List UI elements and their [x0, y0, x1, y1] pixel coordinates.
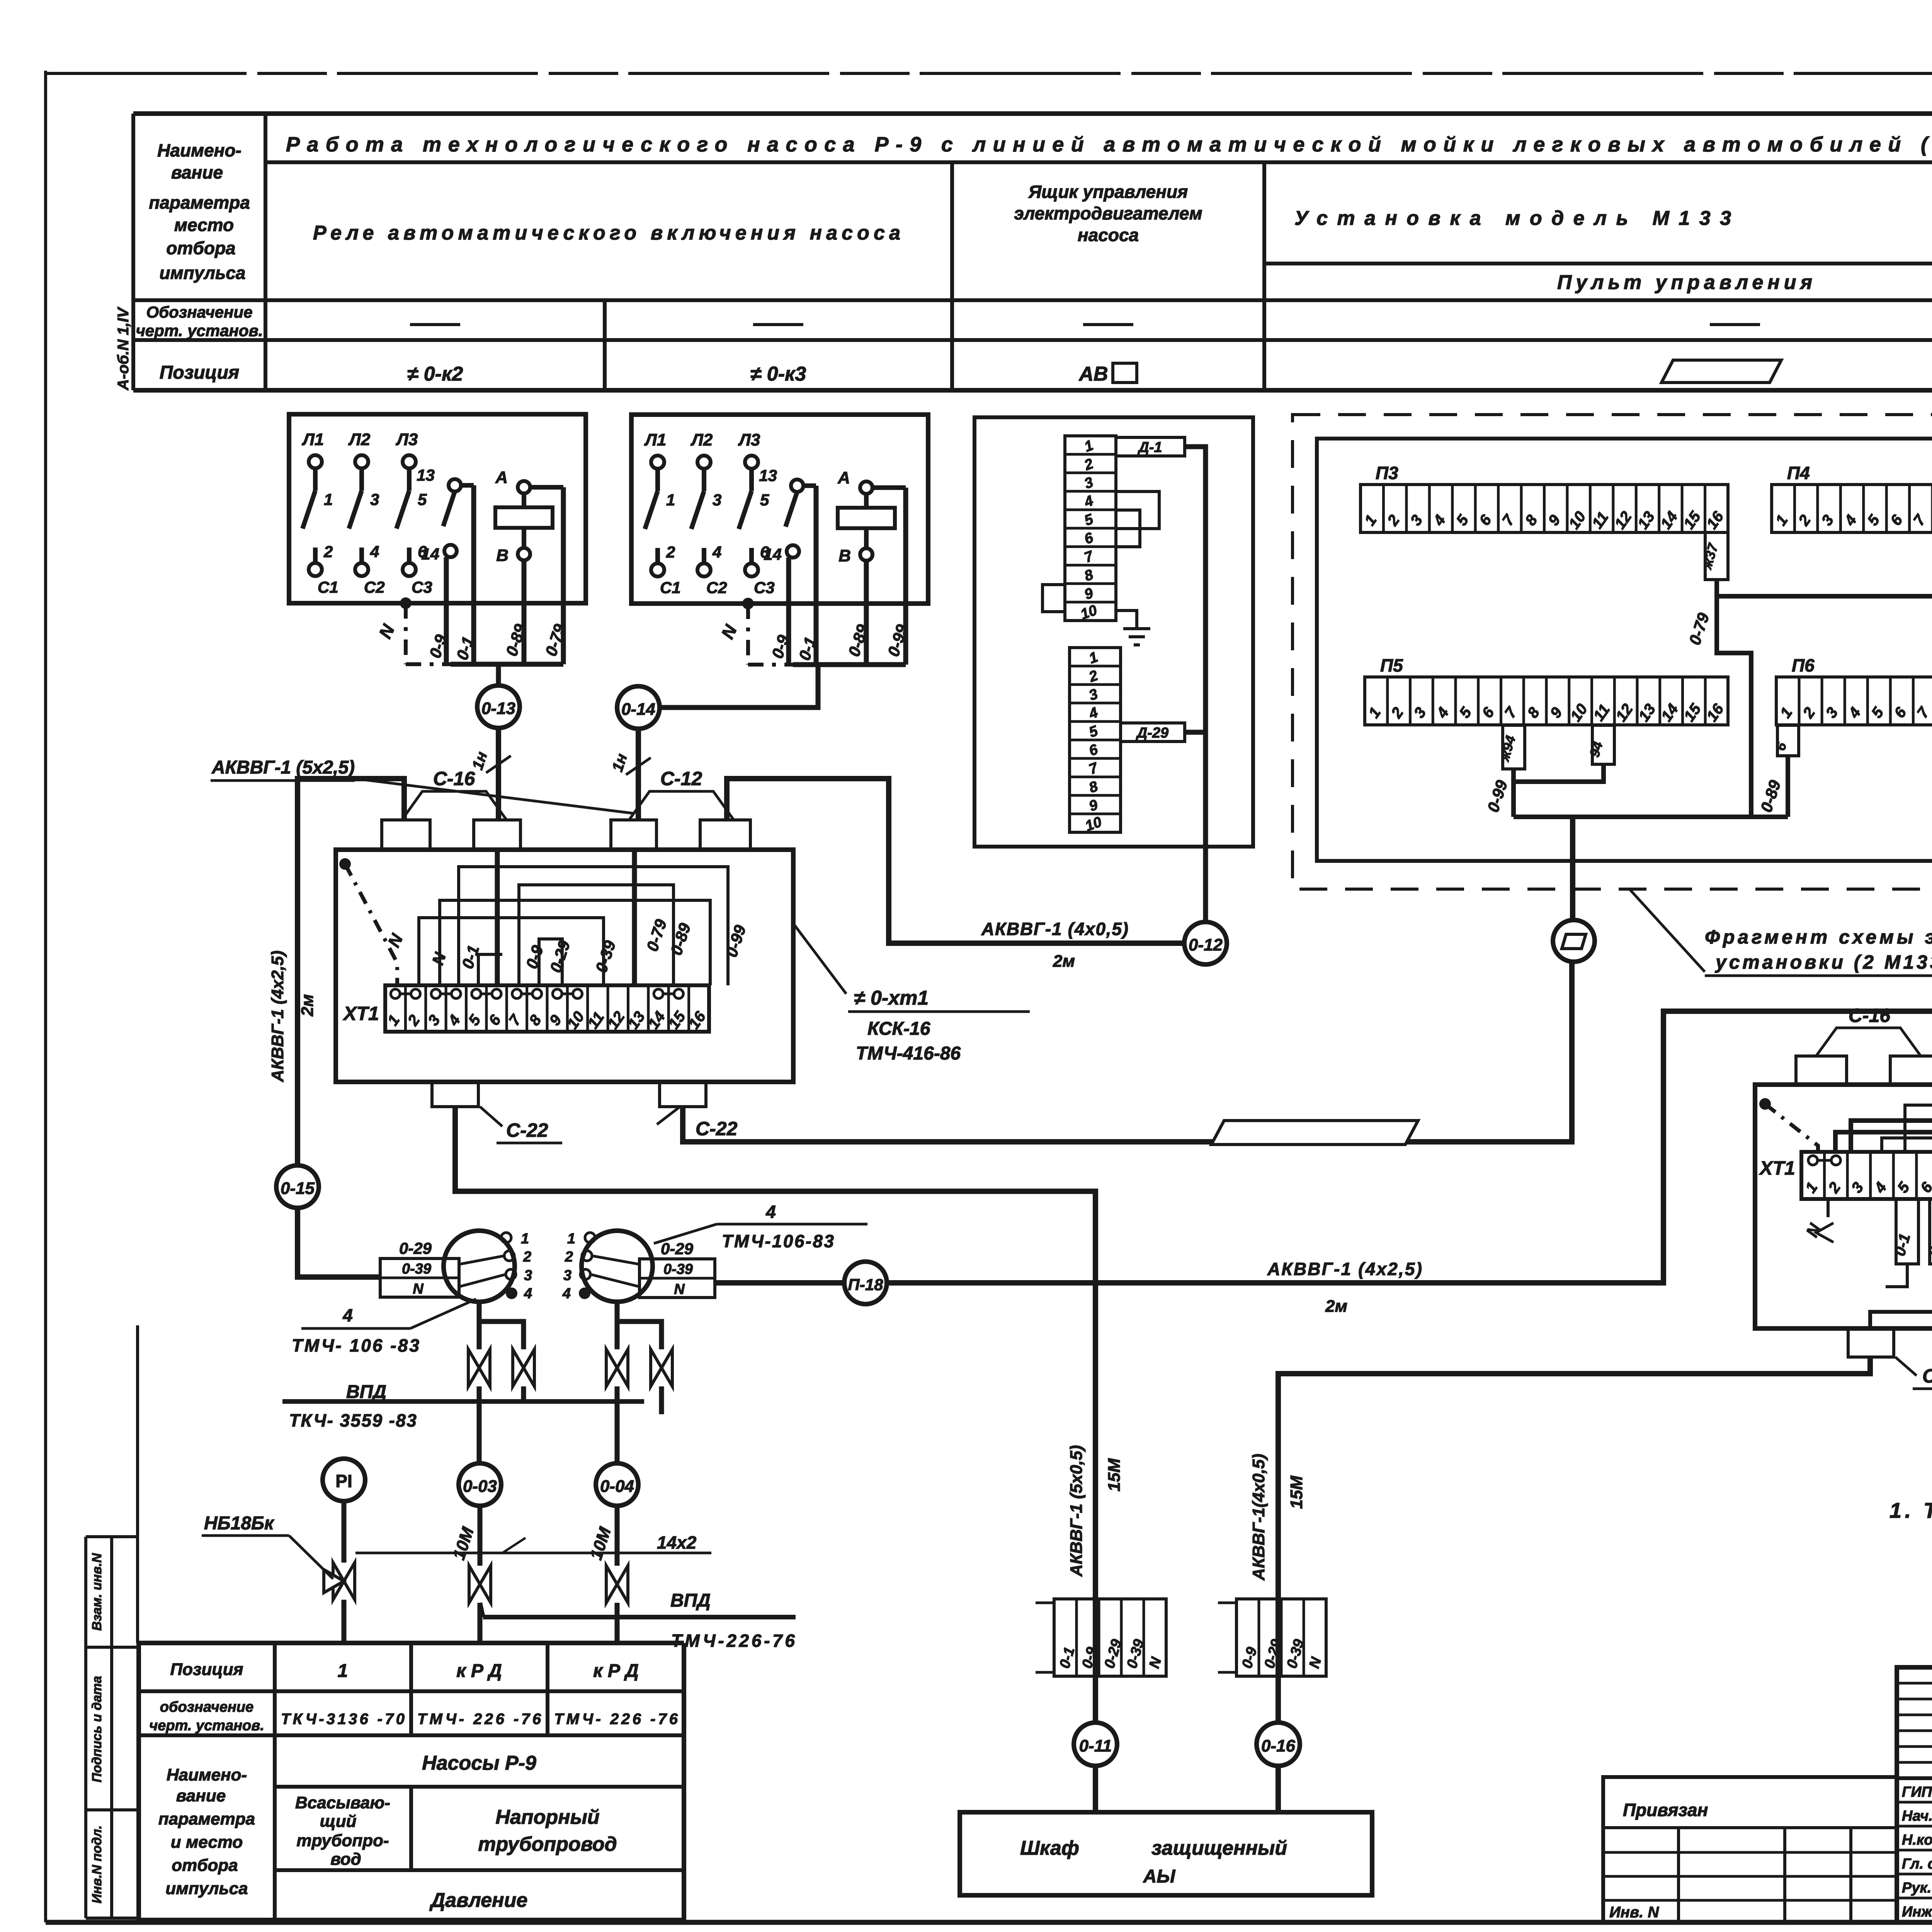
svg-text:0-03: 0-03: [463, 1477, 497, 1496]
junction box 0-ХТ1 (right) outline: [1755, 1085, 1932, 1328]
transmitter circle О-15: [276, 1165, 319, 1208]
svg-text:Инв. N: Инв. N: [1609, 1904, 1659, 1921]
svg-text:место: место: [174, 215, 234, 235]
svg-text:Гл. спец: Гл. спец: [1902, 1856, 1932, 1872]
svg-text:П4: П4: [1787, 463, 1810, 483]
hanging tag 0-9 (right box): [1930, 1199, 1932, 1264]
svg-text:3: 3: [524, 1267, 532, 1284]
connector 2 cable tag О-29/О-39/N: [639, 1259, 715, 1298]
wire Д-1/Д-29 down to О-12: [1185, 447, 1206, 922]
svg-text:С1: С1: [660, 578, 681, 597]
svg-text:КСК-16: КСК-16: [867, 1019, 930, 1039]
hanging tag 0-1 (right box): [1896, 1199, 1918, 1264]
С-16 tabs on top of right ХТ1 box: [1796, 1056, 1847, 1085]
dash-dot neutral lead inside right box: [1759, 1098, 1771, 1110]
transmitter circle О-16: [1257, 1723, 1300, 1766]
С-16 bracket and label: [402, 791, 507, 820]
ground symbol under upper strip: [1116, 611, 1137, 629]
sheet frame bottom border: [46, 1920, 1932, 1925]
svg-text:Напорный: Напорный: [495, 1806, 599, 1828]
svg-text:1: 1: [666, 491, 675, 509]
terminal strip 1-10 (lower) in middle Д box: [1070, 648, 1121, 832]
wire drop 0-99: [903, 488, 908, 665]
cable tag Д-1: [1116, 437, 1185, 456]
riser to О-03: [477, 1401, 482, 1463]
wire to О-16: [1276, 1676, 1281, 1723]
svg-text:импульса: импульса: [165, 1879, 248, 1898]
svg-text:параметра: параметра: [149, 192, 250, 213]
title block outline: [1897, 1667, 1932, 1922]
wire drop 0-89: [864, 561, 869, 665]
svg-text:≠ 0-к3: ≠ 0-к3: [750, 363, 806, 385]
svg-text:Рук. гр.: Рук. гр.: [1902, 1880, 1932, 1896]
svg-text:0-15: 0-15: [281, 1179, 315, 1198]
svg-text:Давление: Давление: [429, 1889, 528, 1912]
transmitter circle О-11: [1074, 1723, 1117, 1766]
terminal strip П4 1-16: [1772, 485, 1932, 532]
internal harness (right box): [1835, 1056, 1932, 1152]
installation unit inner solid box: [1317, 439, 1932, 861]
valve 2a: [606, 1349, 628, 1386]
three-way valve under РI: [333, 1563, 355, 1600]
svg-text:ТМЧ-226-76: ТМЧ-226-76: [671, 1631, 795, 1651]
svg-text:НБ18Бк: НБ18Бк: [204, 1513, 275, 1534]
svg-text:1: 1: [338, 1661, 348, 1681]
signature table: [1897, 1801, 1932, 1804]
svg-text:PI: PI: [335, 1471, 352, 1491]
svg-text:АКВВГ-1 (4х0,5): АКВВГ-1 (4х0,5): [981, 919, 1128, 939]
wire О-99 drop from П5: [1511, 782, 1516, 817]
terminal strip П3 1-16: [1361, 485, 1728, 532]
connector 2 drop wire: [615, 1302, 620, 1349]
wire to О-11: [1093, 1676, 1098, 1723]
svg-text:С-16: С-16: [1849, 1005, 1891, 1026]
svg-text:13: 13: [417, 466, 435, 484]
header позиция value parallelogram: [1662, 360, 1781, 383]
svg-text:отбора: отбора: [166, 238, 235, 258]
connector 1 pins 1-4: [501, 1233, 511, 1243]
hanging tag ж37 under П3 cell16: [1705, 532, 1728, 580]
С-22 label left: [480, 1107, 502, 1126]
Привязан table: [1603, 1777, 1897, 1922]
svg-text:Шкаф: Шкаф: [1020, 1837, 1079, 1859]
label 0-ХТ1 КСК-16 ТМЧ-416-86 (left box): [793, 923, 846, 994]
svg-text:А-об.N 1,IV: А-об.N 1,IV: [115, 306, 132, 391]
svg-text:черт. установ.: черт. установ.: [149, 1718, 264, 1734]
svg-text:Л1: Л1: [302, 430, 324, 449]
svg-text:С-12: С-12: [660, 768, 702, 789]
left margin boundary line: [136, 1325, 139, 1643]
wire О-14 to connector С-12: [636, 729, 641, 820]
internal wire О-14 entry: [632, 850, 637, 985]
N junction dot and dash-dot neutral drop: [742, 598, 754, 609]
svg-text:0-11: 0-11: [1079, 1736, 1112, 1755]
svg-text:отбора: отбора: [172, 1856, 238, 1875]
svg-text:N: N: [674, 1281, 685, 1298]
relay box 0-К3 outline: [631, 415, 928, 604]
svg-text:Л3: Л3: [396, 430, 418, 449]
wire bus to О-14: [660, 665, 818, 707]
sheet frame left border: [44, 71, 47, 1922]
jumper bracket cells 3-5: [1116, 492, 1159, 529]
header table grid: [133, 111, 1932, 116]
svg-text:Подпись и дата: Подпись и дата: [90, 1676, 104, 1782]
svg-text:ХТ1: ХТ1: [342, 1003, 379, 1024]
svg-text:АКВВГ-1 (4х2,5): АКВВГ-1 (4х2,5): [1267, 1259, 1422, 1279]
svg-text:трубопровод: трубопровод: [478, 1833, 617, 1855]
svg-text:С-22: С-22: [1922, 1365, 1932, 1387]
svg-text:ГИП: ГИП: [1902, 1784, 1932, 1800]
svg-text:П5: П5: [1380, 655, 1403, 675]
svg-text:1: 1: [567, 1231, 575, 1247]
svg-text:Д-1: Д-1: [1137, 439, 1162, 456]
С-22 tabs on bottom of left ХТ1 box: [432, 1082, 478, 1107]
svg-text:С-22: С-22: [506, 1119, 548, 1141]
svg-text:ХТ1: ХТ1: [1759, 1157, 1795, 1179]
internal jumper harness (left box): [459, 867, 728, 985]
svg-text:4: 4: [370, 543, 379, 561]
transmitter circle О-12: [1184, 922, 1227, 964]
tag linking wires (right box): [1870, 1264, 1932, 1328]
svg-text:3: 3: [563, 1267, 571, 1284]
svg-text:15М: 15М: [1105, 1458, 1124, 1492]
impulse line 14х2: [355, 1552, 711, 1554]
svg-text:ТМЧ-416-86: ТМЧ-416-86: [856, 1043, 961, 1064]
svg-text:Нач. отд.: Нач. отд.: [1902, 1808, 1932, 1824]
pipe ВПД ТКЧ-3559-83: [282, 1399, 644, 1404]
connector 2 pins 1-4: [585, 1233, 595, 1243]
wire О-12 to С-12 right tab: [727, 779, 1184, 943]
С-12 bracket and label: [629, 791, 734, 820]
wire О-15 riser: [298, 779, 404, 1165]
svg-text:0-39: 0-39: [663, 1261, 693, 1277]
hanging tag ж94 under П5 cell7: [1503, 725, 1525, 769]
svg-text:3: 3: [713, 491, 721, 509]
svg-text:Л2: Л2: [348, 430, 371, 449]
svg-text:2м: 2м: [298, 994, 317, 1017]
terminal strip 1-10 (upper) in middle Д box: [1065, 436, 1116, 621]
svg-text:≠ 0-к2: ≠ 0-к2: [407, 363, 463, 385]
С-22 tabs bottom of right ХТ1 box: [1848, 1328, 1894, 1357]
svg-text:2м: 2м: [1325, 1297, 1347, 1316]
svg-text:ВПД: ВПД: [346, 1382, 386, 1402]
svg-text:0-04: 0-04: [600, 1477, 634, 1496]
svg-text:2: 2: [565, 1249, 573, 1265]
installation unit dashed enclosure: [1293, 415, 1932, 889]
valve 1a: [468, 1349, 490, 1386]
wire О-15 to round connector tag: [298, 1208, 380, 1277]
wire drop 0-89: [522, 560, 527, 664]
relay box 0-К2 outline: [289, 414, 586, 603]
round connector 1 body: [444, 1231, 515, 1302]
svg-text:АВ: АВ: [1078, 363, 1108, 385]
svg-text:0-16: 0-16: [1261, 1736, 1296, 1755]
svg-text:ТКЧ-3136 -70: ТКЧ-3136 -70: [281, 1711, 405, 1728]
svg-text:насоса: насоса: [1078, 225, 1139, 245]
hanging tag 94 under П5 cell11: [1592, 725, 1614, 764]
transmitter circle О-13: [477, 685, 520, 728]
svg-text:обозначение: обозначение: [160, 1699, 254, 1715]
svg-text:Л2: Л2: [690, 430, 713, 449]
svg-text:П3: П3: [1376, 463, 1398, 483]
svg-text:0-12: 0-12: [1189, 935, 1223, 954]
cable link symbol (circle with sleeve): [1553, 920, 1595, 962]
svg-text:1: 1: [324, 490, 333, 509]
terminal jumper circles on strip (left box): [391, 989, 400, 998]
svg-text:Инв.N подл.: Инв.N подл.: [90, 1825, 104, 1903]
svg-text:2м: 2м: [1053, 952, 1075, 971]
svg-text:защищенный: защищенный: [1151, 1837, 1287, 1859]
svg-text:А: А: [837, 468, 850, 487]
junction box 0-ХТ1 (left) outline: [336, 850, 793, 1082]
wire drop 0-1: [471, 485, 476, 664]
pipe ВПД ТМЧ-226-76 lower: [483, 1615, 796, 1619]
svg-text:Привязан: Привязан: [1623, 1800, 1708, 1820]
svg-text:щий: щий: [320, 1812, 357, 1831]
svg-text:ТМЧ- 226 -76: ТМЧ- 226 -76: [554, 1711, 678, 1728]
junction box Д (middle) outline: [975, 417, 1253, 847]
С-16 bracket and label (right box): [1816, 1028, 1921, 1056]
svg-text:3: 3: [370, 490, 379, 509]
cable tag Д-29: [1121, 723, 1185, 742]
wire bus down to cable link circle: [1570, 817, 1575, 920]
svg-text:0-29: 0-29: [399, 1239, 432, 1257]
svg-text:ТМЧ- 226 -76: ТМЧ- 226 -76: [417, 1711, 541, 1728]
svg-text:4: 4: [342, 1305, 353, 1325]
svg-text:ВПД: ВПД: [670, 1590, 711, 1611]
side tab cells 9-10: [1043, 585, 1065, 612]
wire П-18 to right ХТ1 box С-12 tab: [715, 1280, 844, 1286]
svg-text:электродвигателем: электродвигателем: [1014, 203, 1202, 223]
bus inside installation box: [1514, 815, 1788, 819]
round connector 2 body: [582, 1231, 653, 1302]
svg-text:установки (2 М133. 00. 0: установки (2 М133. 00. 00. 000 ЭЧ): [1714, 951, 1932, 973]
svg-text:Наимено-: Наимено-: [157, 140, 241, 160]
terminal strip П6 1-16: [1776, 677, 1932, 725]
svg-text:С-22: С-22: [696, 1118, 738, 1139]
svg-text:Инженер: Инженер: [1902, 1904, 1932, 1920]
svg-text:4: 4: [524, 1286, 532, 1302]
svg-text:2: 2: [523, 1249, 531, 1265]
bus under relay box 1: [451, 662, 563, 667]
svg-text:импульса: импульса: [160, 263, 246, 283]
svg-text:14: 14: [764, 545, 782, 563]
svg-text:вание: вание: [176, 1786, 226, 1805]
svg-text:14: 14: [421, 545, 439, 563]
hanging tags N 0-1 0-9 0-29 0-39 (right box): [1827, 1199, 1830, 1217]
wire drop 0-9: [786, 558, 791, 665]
left margin stamp boxes: [84, 1537, 87, 1918]
terminal strip П5 1-16: [1365, 677, 1728, 725]
svg-text:трубопро-: трубопро-: [296, 1831, 389, 1850]
svg-text:С3: С3: [412, 578, 432, 596]
terminal strip ХТ1 1-16 (left box): [385, 985, 709, 1032]
svg-text:Л3: Л3: [738, 430, 760, 449]
connector 1 tag leads: [459, 1256, 504, 1264]
svg-text:Всасываю-: Всасываю-: [295, 1793, 390, 1812]
hanging tag 6 under П6 cell1: [1777, 725, 1799, 756]
svg-text:0-13: 0-13: [481, 699, 515, 718]
terminal tag strip О-1 О-9 О-29 О-39 N (О-11): [1054, 1599, 1166, 1676]
svg-text:С1: С1: [318, 578, 338, 596]
svg-text:АКВВГ-1 (5х0,5): АКВВГ-1 (5х0,5): [1067, 1445, 1086, 1577]
wire О-79 drop from П3: [1717, 596, 1751, 817]
С-12 tabs on top of left ХТ1 box: [611, 820, 656, 850]
svg-text:0-39: 0-39: [402, 1261, 431, 1277]
terminal tag strip О-9 О-29 О-39 N (О-16): [1236, 1599, 1326, 1676]
svg-text:и место: и место: [171, 1833, 243, 1852]
svg-text:Ящик управления: Ящик управления: [1028, 182, 1188, 202]
svg-text:Работа технологического насо: Работа технологического насоса Р-9 с лин…: [286, 133, 1932, 156]
svg-text:ТМЧ- 106 -83: ТМЧ- 106 -83: [292, 1335, 419, 1355]
wire О-13 to connector С-16: [496, 728, 501, 820]
svg-text:1: 1: [521, 1231, 529, 1247]
jumper bracket cells 4-6: [1116, 510, 1140, 547]
svg-text:к Р Д: к Р Д: [456, 1661, 502, 1681]
svg-text:АКВВГ-1 (4х2,5): АКВВГ-1 (4х2,5): [268, 951, 287, 1082]
svg-text:Н.контр.: Н.контр.: [1902, 1832, 1932, 1848]
svg-text:Л1: Л1: [644, 430, 667, 449]
connector 2 tag leads: [592, 1256, 639, 1264]
riser to О-04: [615, 1401, 620, 1463]
dash-dot neutral lead inside left box: [339, 858, 351, 870]
svg-text:Д-29: Д-29: [1136, 725, 1168, 741]
wire С-22 left tab to О-11 strip: [455, 1107, 1095, 1676]
svg-text:2: 2: [323, 543, 333, 561]
wire О-89 drop from П6: [1786, 756, 1790, 817]
svg-text:0-14: 0-14: [621, 700, 655, 719]
svg-text:14х2: 14х2: [657, 1532, 697, 1553]
svg-text:параметра: параметра: [158, 1810, 255, 1828]
valve 2b: [651, 1349, 672, 1386]
svg-text:4: 4: [765, 1202, 776, 1222]
svg-text:вод: вод: [330, 1850, 361, 1869]
svg-text:С-16: С-16: [433, 768, 476, 789]
С-22 label right: [657, 1107, 680, 1124]
lower valve 2: [606, 1566, 628, 1603]
svg-text:АКВВГ-1 (5х2,5): АКВВГ-1 (5х2,5): [211, 757, 355, 778]
revision table grid: [1897, 1682, 1932, 1685]
svg-text:13: 13: [759, 466, 777, 485]
N junction dot and dash-dot neutral drop: [400, 597, 412, 609]
terminal strip ХТ1 1-16 (right box): [1801, 1152, 1932, 1199]
svg-text:вание: вание: [171, 162, 223, 182]
svg-text:В: В: [496, 546, 509, 565]
svg-text:Наимено-: Наимено-: [167, 1765, 247, 1784]
svg-text:Насосы Р-9: Насосы Р-9: [422, 1752, 536, 1774]
С-22 label left (right box): [1895, 1357, 1917, 1376]
valve 1b: [513, 1349, 534, 1386]
svg-text:N: N: [413, 1281, 424, 1297]
bottom-left parameter table grid: [139, 1641, 684, 1645]
svg-text:Позиция: Позиция: [160, 362, 239, 383]
svg-text:15М: 15М: [1287, 1475, 1306, 1509]
svg-text:4: 4: [562, 1286, 571, 1302]
svg-text:5: 5: [418, 490, 427, 509]
svg-text:П6: П6: [1792, 655, 1815, 675]
transmitter circle О-04: [596, 1463, 638, 1506]
wire drop 0-9: [444, 557, 449, 664]
svg-text:С3: С3: [754, 578, 775, 597]
шкаф защищенный box: [960, 1812, 1372, 1895]
svg-text:1. Таблица применяемости: 1. Таблица применяемости лист 24.: [1889, 1498, 1932, 1522]
svg-text:ТКЧ- 3559 -83: ТКЧ- 3559 -83: [289, 1410, 417, 1430]
svg-text:к Р Д: к Р Д: [593, 1661, 639, 1681]
С-16 tabs on top of left ХТ1 box: [382, 820, 430, 850]
jumper wire П5:7 to П5:11: [1514, 764, 1604, 782]
internal wire О-13 entry: [495, 850, 500, 985]
svg-text:Обозначение: Обозначение: [146, 303, 252, 321]
svg-text:2: 2: [666, 543, 675, 561]
svg-text:ТМЧ-106-83: ТМЧ-106-83: [722, 1231, 834, 1251]
connector 1 cable tag О-29/О-39/N: [380, 1259, 459, 1297]
svg-text:П-18: П-18: [848, 1276, 884, 1294]
svg-text:АКВВГ-1(4х0,5): АКВВГ-1(4х0,5): [1249, 1454, 1268, 1581]
svg-text:С2: С2: [364, 578, 385, 596]
transmitter circle О-03: [459, 1463, 501, 1506]
lower valve 1: [469, 1566, 491, 1603]
svg-text:АЫ: АЫ: [1143, 1866, 1176, 1887]
wire С-22 right tab to cable link: [683, 962, 1572, 1142]
empty parallelogram label on wire: [1211, 1121, 1418, 1145]
wire drop 0-79: [561, 487, 566, 664]
jumper wire П3:16 to П4:14: [1717, 576, 1932, 596]
terminal jumper circles on strip (right box): [1808, 1156, 1818, 1165]
transmitter circle П-18: [844, 1262, 887, 1304]
wire С-22 left tab to О-16 strip: [1278, 1357, 1870, 1676]
svg-text:4: 4: [712, 543, 721, 561]
connector 1 drop wire: [477, 1302, 482, 1349]
svg-text:≠ 0-хт1: ≠ 0-хт1: [854, 987, 929, 1009]
note Фрагмент схемы электрической соединений установки: [1629, 889, 1705, 972]
svg-text:Позиция: Позиция: [170, 1660, 243, 1679]
pressure gauge РI: [323, 1459, 365, 1501]
svg-text:черт. установ.: черт. установ.: [136, 321, 263, 340]
wire drop 0-1: [814, 486, 819, 665]
svg-text:Взам. инв.N: Взам. инв.N: [90, 1553, 104, 1631]
svg-text:А: А: [495, 468, 508, 487]
sheet frame top border: [46, 72, 1932, 75]
svg-text:0-29: 0-29: [661, 1240, 694, 1258]
transmitter circle О-14: [617, 686, 660, 729]
svg-text:5: 5: [760, 491, 769, 509]
svg-text:С2: С2: [706, 578, 727, 597]
header обозначение dashes: [410, 323, 460, 326]
bus under relay box 2: [793, 662, 906, 667]
svg-text:Фрагмент схемы электрической: Фрагмент схемы электрической соединений: [1705, 926, 1932, 948]
svg-text:В: В: [838, 546, 851, 565]
